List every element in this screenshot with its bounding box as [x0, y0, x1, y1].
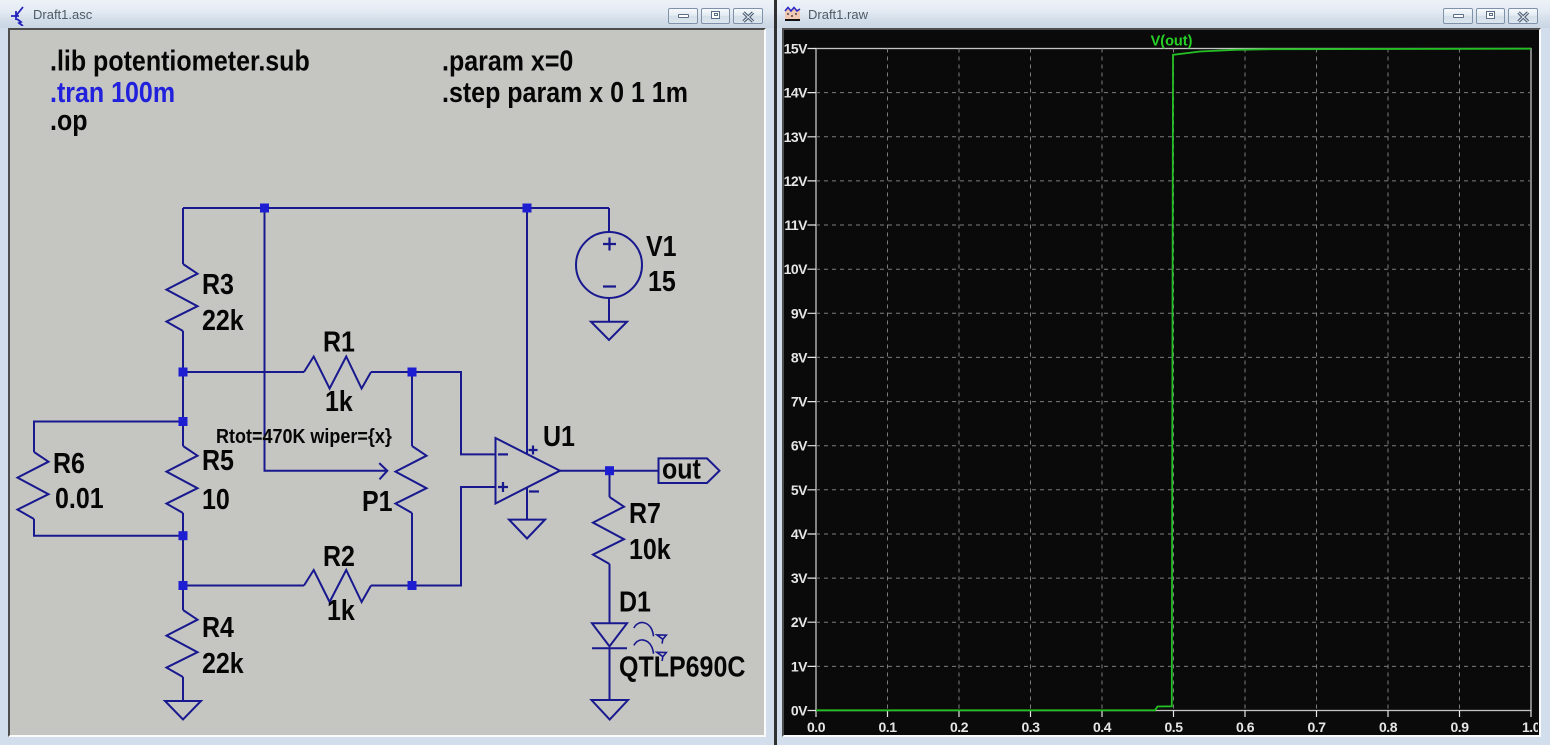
svg-text:0.01: 0.01 — [55, 482, 104, 514]
wire R6 bottom — [34, 519, 183, 536]
right window Draft1.raw — [775, 0, 1550, 745]
wire U1 V+ — [526, 208, 528, 454]
svg-text:R7: R7 — [629, 497, 661, 529]
svg-text:V(out): V(out) — [1151, 34, 1193, 50]
svg-text:QTLP690C: QTLP690C — [619, 651, 745, 683]
D1 LED arrow 2 — [634, 640, 654, 654]
trace V(out) — [816, 49, 1531, 711]
svg-text:0.4: 0.4 — [1093, 719, 1112, 735]
svg-text:R3: R3 — [202, 268, 234, 300]
wire R1 right — [371, 371, 412, 373]
svg-text:0.8: 0.8 — [1379, 719, 1398, 735]
ground V1 — [591, 322, 627, 340]
vertical gridlines — [888, 49, 1460, 711]
svg-text:R5: R5 — [202, 444, 234, 476]
svg-text:1k: 1k — [327, 594, 355, 626]
junction node (609,470) — [605, 466, 614, 475]
ground R4 — [165, 701, 201, 720]
resistor R7 — [593, 497, 624, 564]
svg-text:R2: R2 — [323, 540, 355, 572]
svg-text:1V: 1V — [791, 658, 808, 674]
svg-text:U1: U1 — [543, 420, 575, 452]
svg-text:0.5: 0.5 — [1165, 719, 1184, 735]
voltage source V1 — [576, 232, 642, 298]
svg-text:10: 10 — [202, 483, 230, 515]
svg-text:P1: P1 — [362, 485, 393, 517]
svg-text:1k: 1k — [325, 385, 353, 417]
D1 LED arrow 1 — [634, 622, 654, 636]
svg-text:V1: V1 — [646, 230, 677, 262]
U1 V- mark — [529, 490, 539, 492]
svg-text:.op: .op — [50, 104, 87, 136]
V1 plus mark — [603, 238, 616, 251]
svg-text:.lib potentiometer.sub: .lib potentiometer.sub — [50, 45, 310, 77]
svg-text:2V: 2V — [791, 614, 808, 630]
P1 wiper arrowhead — [379, 463, 387, 479]
ground D1 — [592, 700, 629, 720]
svg-text:8V: 8V — [791, 349, 808, 365]
svg-text:0.2: 0.2 — [950, 719, 969, 735]
svg-text:6V: 6V — [791, 438, 808, 454]
left window Draft1.asc — [0, 0, 775, 745]
D1 cathode bar — [592, 647, 627, 649]
svg-text:3V: 3V — [791, 570, 808, 586]
LTspice waveform icon — [784, 5, 802, 23]
svg-text:R1: R1 — [323, 326, 355, 358]
wire V1 top — [608, 208, 610, 232]
LTspice schematic icon — [7, 4, 29, 26]
wire U1 output — [560, 470, 659, 472]
wire R4 to ground — [182, 677, 184, 701]
svg-text:0.9: 0.9 — [1451, 719, 1470, 735]
svg-text:5V: 5V — [791, 482, 808, 498]
wire top rail — [183, 207, 609, 209]
svg-text:Rtot=470K wiper={x}: Rtot=470K wiper={x} — [216, 425, 392, 448]
svg-text:4V: 4V — [791, 526, 808, 542]
svg-text:0.1: 0.1 — [879, 719, 898, 735]
junction node (412,372) — [408, 368, 417, 377]
wire P1 wiper — [265, 208, 388, 471]
y axis ticks — [808, 49, 817, 711]
resistor R5 — [167, 446, 198, 513]
svg-text:11V: 11V — [784, 217, 808, 233]
svg-text:out: out — [662, 453, 701, 485]
junction node (183,421) — [179, 417, 188, 426]
wire opamp inverting input — [412, 372, 496, 454]
wire R2 left — [183, 585, 304, 587]
svg-text:.param x=0: .param x=0 — [442, 45, 573, 77]
x axis ticks — [816, 711, 1531, 718]
wire V1 to ground — [608, 298, 610, 322]
wire left column top — [182, 208, 184, 264]
resistor R1 — [304, 357, 371, 389]
junction node (412,585) — [408, 581, 417, 590]
junction node (527,208) — [523, 204, 532, 213]
op-amp U1 — [496, 438, 561, 504]
svg-text:0.7: 0.7 — [1308, 719, 1327, 735]
V1 minus mark — [603, 285, 616, 287]
U1 non-inverting mark — [498, 482, 508, 492]
wire P1 column bottom — [411, 513, 413, 586]
svg-text:13V: 13V — [784, 129, 808, 145]
wire left column mid — [182, 331, 184, 446]
resistor R2 — [304, 570, 371, 602]
resistor R3 — [167, 264, 198, 331]
wire R2 right — [371, 585, 412, 587]
svg-text:10k: 10k — [629, 533, 671, 565]
junction node (183,535) — [179, 531, 188, 540]
wire R6 top — [34, 422, 183, 453]
potentiometer P1 — [396, 446, 427, 513]
svg-text:15: 15 — [648, 265, 676, 297]
svg-text:0.6: 0.6 — [1236, 719, 1255, 735]
svg-text:0.0: 0.0 — [807, 719, 826, 735]
wire R1 left — [183, 371, 304, 373]
svg-text:R4: R4 — [202, 611, 234, 643]
resistor R4 — [167, 610, 198, 677]
svg-text:14V: 14V — [784, 85, 808, 101]
junction node (183,585) — [179, 581, 188, 590]
diode D1 — [592, 623, 627, 646]
wire U1 V- — [526, 488, 528, 520]
svg-text:R6: R6 — [53, 447, 85, 479]
svg-text:0.3: 0.3 — [1022, 719, 1041, 735]
plot frame — [816, 49, 1531, 711]
node out flag — [659, 458, 720, 483]
svg-text:0V: 0V — [791, 703, 808, 719]
svg-text:22k: 22k — [202, 647, 244, 679]
svg-text:10V: 10V — [784, 261, 808, 277]
horizontal gridlines — [816, 93, 1531, 667]
svg-text:15V: 15V — [784, 41, 808, 57]
junction node (183,372) — [179, 368, 188, 377]
svg-text:9V: 9V — [791, 305, 808, 321]
junction node (264,208) — [260, 204, 269, 213]
svg-text:D1: D1 — [619, 586, 651, 618]
svg-text:1.0: 1.0 — [1522, 719, 1538, 735]
svg-text:.step param x 0 1 1m: .step param x 0 1 1m — [442, 76, 688, 108]
wire opamp non-inverting input — [412, 487, 496, 586]
svg-text:22k: 22k — [202, 304, 244, 336]
U1 inverting mark — [498, 453, 508, 455]
wire D1 to ground — [609, 648, 611, 700]
wire left column lower — [182, 513, 184, 610]
svg-text:12V: 12V — [784, 173, 808, 189]
wire P1 column top — [411, 372, 413, 446]
U1 V+ mark — [529, 446, 538, 455]
resistor R6 — [18, 452, 49, 519]
wire R7 to D1 — [609, 564, 611, 623]
wire R7 top — [609, 471, 611, 497]
ground U1 — [509, 520, 545, 539]
svg-text:7V: 7V — [791, 394, 808, 410]
